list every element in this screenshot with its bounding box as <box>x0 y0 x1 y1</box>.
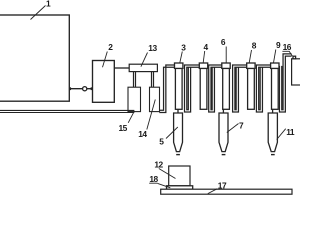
leader 11 <box>277 129 286 140</box>
leader 16 + underline <box>282 51 292 56</box>
wire: long drain line to left edge (double) <box>0 110 134 112</box>
trap box 16 <box>292 59 301 85</box>
tube 11 tick <box>271 154 275 156</box>
svg-text:18: 18 <box>149 174 158 184</box>
box 12 <box>169 166 190 186</box>
wire: vessel 2 to heater 13 <box>114 67 129 69</box>
collection tube 7 <box>219 113 228 152</box>
vessel 2 <box>93 61 115 103</box>
valve circle <box>83 87 87 91</box>
svg-text:13: 13 <box>148 43 157 53</box>
svg-text:11: 11 <box>286 127 295 137</box>
box 16 nub <box>293 56 296 59</box>
vessel 15 <box>128 87 141 111</box>
leader 17 <box>208 189 218 194</box>
leader 15 <box>128 111 134 123</box>
leader 1 <box>31 6 46 20</box>
leader 14 <box>147 100 156 130</box>
tube 7 tick <box>222 154 226 156</box>
column 6 body <box>223 68 230 109</box>
leader 3 <box>180 52 183 63</box>
heater box 13 <box>129 64 157 71</box>
pipe: vessel 14 bottom to column 3 top (double line) <box>159 65 174 113</box>
base flange 18 <box>167 186 193 189</box>
collection tube 11 <box>268 113 277 152</box>
column 4 cap <box>199 63 207 68</box>
leader 9 <box>274 50 276 63</box>
junction tick left <box>69 87 71 90</box>
pipe: box 13 down to vessel 14 (double line) <box>152 72 154 88</box>
leader 13 <box>141 53 148 67</box>
svg-text:15: 15 <box>119 123 128 133</box>
tube 5 tick <box>176 154 180 156</box>
leader 18 + underline <box>149 183 170 188</box>
tank 1 <box>0 15 69 101</box>
collection tube 5 <box>174 113 183 152</box>
pipe: column 4 bottom U-bend to column 6 top (double line) <box>209 65 222 112</box>
pipe: column 6 bottom U-bend to column 8 top (double line) <box>233 65 247 112</box>
column 8 cap <box>247 63 255 68</box>
pipe: column 8 bottom U-bend to column 9 top (double line) <box>256 65 270 112</box>
column 6 cap <box>222 63 230 68</box>
column 9 cap <box>271 63 279 68</box>
svg-text:17: 17 <box>218 180 227 190</box>
column 8 body <box>248 68 255 109</box>
svg-text:16: 16 <box>283 42 292 52</box>
pipe: box 13 down to vessel 15 (double line) <box>134 72 136 88</box>
column 4 body <box>200 68 207 109</box>
leader 7 <box>227 124 239 133</box>
column 9 body <box>272 68 279 109</box>
column 3 body <box>175 68 182 109</box>
junction tick right <box>90 87 92 90</box>
leader 2 <box>103 52 108 68</box>
leader 5 <box>166 127 178 139</box>
svg-text:12: 12 <box>154 160 163 170</box>
drain column 3 <box>177 109 179 113</box>
leader 12 <box>159 169 176 179</box>
pipe: column 3 bottom U-bend to column 4 top (double line) <box>185 65 200 112</box>
svg-text:14: 14 <box>138 129 147 139</box>
column 3 cap <box>175 63 183 68</box>
leader 8 <box>249 50 251 63</box>
wire: tank 1 to vessel 2 <box>69 88 92 90</box>
leader 6 <box>225 47 227 63</box>
drain column 6 <box>222 109 224 113</box>
drain column 9 <box>272 109 274 113</box>
pipe: column 9 bottom U-bend up to trap box 16 (double line) <box>279 54 291 112</box>
vessel 14 <box>150 87 160 111</box>
plate 17 <box>161 189 292 194</box>
leader 4 <box>203 51 205 63</box>
